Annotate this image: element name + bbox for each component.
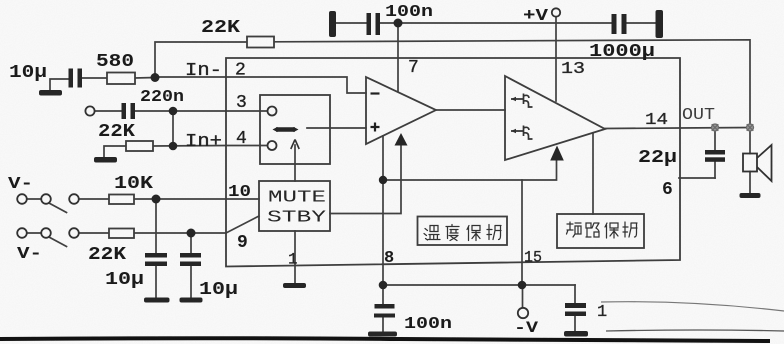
capacitor 1000u plates — [612, 14, 617, 34]
ground bar 10u B — [180, 298, 203, 303]
wire mute switch segment — [27, 198, 42, 200]
wire In+ 22K ground stem — [104, 146, 126, 157]
wire bottom negative rail — [383, 284, 575, 286]
star junction OUT-speaker — [747, 124, 754, 131]
bottom border line — [0, 338, 770, 341]
speaker LS1 — [743, 145, 772, 181]
wire stby switch blade — [48, 237, 67, 247]
terminal mute c — [69, 194, 79, 204]
wire pin 3 to contact — [226, 110, 268, 112]
wire pin15 cap stems — [574, 285, 576, 331]
resistor 22K feedback — [247, 37, 274, 48]
wire 22K to pin 4 — [153, 145, 226, 148]
wire pin 7 vertical — [397, 23, 399, 91]
hanzi bao (thermal box) — [467, 226, 480, 241]
resistor 22K stby — [109, 229, 134, 239]
input switch box — [260, 95, 330, 164]
junction node pin4 — [169, 142, 178, 151]
wire pin 14 OUT — [605, 128, 752, 129]
wire wiper to amp plus input — [307, 127, 366, 129]
ground bar pin 1 — [283, 283, 306, 288]
wire 10u cap B lower stem — [190, 266, 192, 297]
mute arrow head — [291, 140, 299, 150]
capacitor 220n plates — [122, 103, 127, 119]
junction node pin3 — [169, 107, 178, 116]
hanzi du (thermal box) — [446, 225, 459, 241]
wire 22K to pin 9 — [134, 232, 226, 234]
terminal mute a — [17, 194, 27, 204]
IC body box — [226, 58, 680, 267]
wire short-protect vertical — [592, 133, 594, 214]
wire pin8 100n stems — [382, 285, 384, 332]
terminal stby c — [69, 228, 79, 238]
terminal mute b — [41, 194, 51, 204]
wire pin 15 vertical — [521, 180, 523, 285]
wire bias rail — [383, 161, 557, 180]
wire 220n input terminal — [94, 110, 121, 112]
transistor glyph lower in U2 — [511, 126, 533, 140]
scan artifact line 1 — [601, 302, 784, 311]
terminal +V — [552, 8, 560, 16]
scan artifact line 2 — [606, 330, 784, 331]
arrow U2 bias — [550, 146, 564, 161]
wire mute arrow stem — [294, 145, 296, 181]
op-amp U1 input stage triangle — [366, 77, 436, 144]
terminal stby b — [41, 228, 51, 238]
contact pin3 circle — [268, 107, 277, 116]
wire 10u cap A stem — [155, 199, 157, 253]
wire 10u cap B stem — [190, 233, 192, 253]
transistor glyph upper in U2 — [511, 94, 533, 108]
ground bar top rail left — [329, 11, 336, 37]
scan grain overlay — [0, 0, 1, 1]
junction node pin8 — [379, 281, 388, 290]
capacitor pin15 plates — [565, 303, 586, 308]
switch wiper bar — [276, 127, 295, 132]
junction node mute RC — [152, 195, 161, 204]
wire pin 13 vertical — [555, 23, 557, 101]
wire 10u to 580 — [82, 77, 107, 79]
wire pin 4 to contact — [226, 145, 268, 147]
mute-stby box U-internal — [259, 181, 330, 231]
wire pin 1 ground — [294, 231, 296, 283]
capacitor 10u input plates — [69, 69, 74, 88]
wire 10K to pin 10 — [134, 198, 259, 200]
terminal stby a — [17, 228, 27, 238]
hanzi hu (thermal box) — [487, 225, 501, 240]
wire 580 to In- node — [135, 77, 155, 80]
junction node bias rail — [379, 176, 387, 184]
wire stby to bias arrow — [330, 146, 401, 214]
ground bar 10u A — [144, 298, 170, 303]
wire switch to 10K — [79, 198, 110, 200]
wire pin 8 vertical — [382, 136, 384, 285]
wire input 10u to ground — [50, 79, 68, 90]
wire OUT to speaker — [749, 128, 751, 194]
capacitor 10u A plates — [145, 253, 167, 258]
wire feedback 22K top — [155, 40, 750, 127]
wire pin 2 to amp minus input — [226, 77, 366, 93]
short-circuit protect box — [557, 214, 644, 248]
wire In- to pin 2 — [155, 76, 226, 78]
ground bar pin8 100n — [368, 332, 397, 337]
terminal -V — [518, 308, 528, 318]
hanzi duan (short box) — [567, 222, 582, 237]
resistor 10K mute — [109, 195, 134, 205]
wire pin 9 diagonal to mute box — [226, 216, 259, 233]
wire amp1 output to amp2 — [436, 109, 505, 111]
wire node 3 to node 4 vertical — [172, 111, 174, 146]
capacitor 22u plates — [705, 150, 725, 155]
wire +V rail top — [336, 22, 656, 24]
ground bar pin15 cap — [564, 331, 588, 337]
thermal protect box — [418, 217, 508, 246]
ground bar input 10u — [39, 90, 62, 96]
wire 220n to pin 3 — [135, 110, 226, 112]
wire mute switch blade — [48, 203, 67, 213]
capacitor 100n top plates — [367, 13, 372, 35]
wire pin 6 — [679, 177, 715, 179]
hanzi lu (short box) — [586, 223, 599, 237]
resistor 22K input — [126, 141, 153, 151]
terminal input 220n — [85, 106, 94, 115]
junction node In- — [151, 73, 160, 82]
contact pin4 circle — [268, 141, 277, 150]
wire stby switch segment — [27, 232, 42, 234]
star junction OUT-22u — [712, 124, 719, 131]
wire 10u cap A lower stem — [155, 266, 157, 297]
op-amp plus sign — [371, 123, 380, 132]
hanzi bao2 (short box) — [605, 223, 618, 238]
capacitor 10u B plates — [180, 253, 201, 258]
resistor 580 — [107, 73, 135, 85]
ground bar 1000u right — [656, 10, 664, 38]
junction node +V rail — [394, 19, 403, 28]
arrow U1 bias — [395, 133, 408, 146]
wire 22u stems — [714, 128, 716, 179]
ground bar In+ 22K — [94, 157, 117, 163]
wire +V terminal stem — [555, 17, 557, 23]
capacitor 100n pin8 plates — [375, 304, 395, 309]
hanzi hu2 (short box) — [623, 222, 637, 237]
junction node stby RC — [187, 229, 196, 238]
wire -V terminal stem — [522, 285, 524, 308]
wire switch to 22K — [79, 232, 110, 234]
op-amp U2 output stage triangle — [505, 76, 605, 160]
hanzi wen (thermal box) — [424, 226, 440, 241]
ground bar speaker — [740, 193, 761, 198]
op-amp minus sign — [371, 92, 380, 94]
junction node pin15 — [518, 281, 527, 290]
